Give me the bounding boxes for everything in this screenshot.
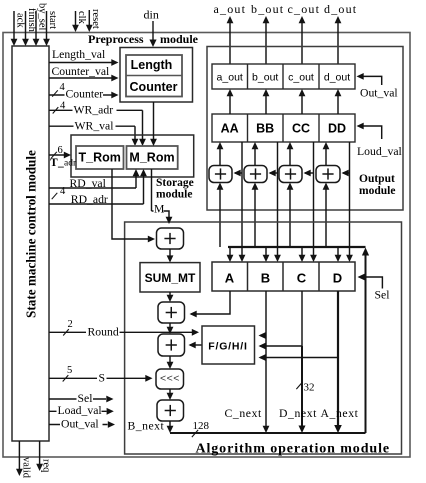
wire register A to adder2 — [191, 291, 230, 314]
wire DD down to register D — [349, 142, 351, 247]
wire bus to adder C — [289, 189, 291, 247]
adder plus output A — [209, 166, 232, 183]
wire adder1 to SUM_MT — [169, 249, 171, 256]
wire SUM_MT to adder2 — [169, 292, 171, 296]
signal T_adr with width 6 — [49, 154, 67, 156]
svg-text:SUM_MT: SUM_MT — [145, 271, 196, 285]
wire adder to BB — [254, 148, 256, 165]
svg-text:Round: Round — [88, 325, 119, 338]
signal Load_val stub — [49, 410, 107, 412]
svg-text:Storage: Storage — [156, 177, 194, 189]
bus stub into register D slot 1 — [337, 247, 339, 256]
svg-text:4: 4 — [60, 101, 66, 112]
wire preprocess to M_Rom — [153, 102, 155, 141]
svg-text:S: S — [99, 371, 106, 384]
wire BB down to register B — [277, 142, 279, 247]
bus stub into register B slot 1 — [265, 247, 267, 256]
wire bus to adder B — [254, 189, 256, 247]
svg-text:CC: CC — [292, 122, 310, 136]
adder plus stage4 — [157, 400, 184, 421]
svg-text:State machine control module: State machine control module — [24, 150, 39, 318]
adder plus output C — [279, 166, 302, 183]
bottom feedback bus line width 128 — [170, 432, 366, 434]
wire adder to DD — [325, 148, 327, 165]
svg-text:Out_val: Out_val — [61, 418, 99, 431]
input signal ack — [13, 11, 15, 40]
wire T from T_Rom to adder1 — [112, 169, 150, 239]
svg-text:T: T — [50, 157, 58, 169]
svg-text:6: 6 — [58, 145, 63, 156]
signal Round width 2 into F/G/H/I — [49, 331, 194, 333]
register row a_out b_out c_out d_out — [212, 64, 355, 89]
algorithm operation module box — [125, 222, 402, 454]
wire B_next from adder4 to bus — [169, 421, 171, 427]
svg-text:B_next: B_next — [128, 420, 165, 433]
svg-text:module: module — [160, 32, 199, 46]
svg-text:Counter: Counter — [66, 88, 104, 101]
svg-text:din: din — [144, 8, 159, 22]
svg-text:AA: AA — [221, 122, 239, 136]
tap BB into adder B — [270, 172, 278, 174]
svg-text:module: module — [156, 189, 192, 201]
adder plus algorithm input — [157, 228, 184, 249]
svg-text:_: _ — [57, 157, 64, 169]
svg-text:M_Rom: M_Rom — [129, 151, 174, 165]
svg-text:ack: ack — [15, 13, 26, 28]
signal Loud_val — [357, 123, 364, 130]
bus stub into register D slot 2 — [349, 247, 351, 256]
svg-text:Length: Length — [131, 58, 173, 72]
svg-text:D_next: D_next — [279, 407, 317, 420]
rom M_Rom — [127, 146, 178, 169]
svg-text:Preprocess: Preprocess — [88, 32, 144, 46]
block F/G/H/I — [202, 326, 255, 364]
input signal clk — [75, 11, 77, 26]
signal Sel into register D — [358, 274, 365, 281]
svg-text:D: D — [333, 271, 342, 286]
shifter block <<< — [156, 369, 184, 389]
svg-text:a_out: a_out — [214, 2, 247, 16]
svg-text:Counter: Counter — [130, 80, 178, 94]
wire register D down A_next — [337, 291, 339, 358]
svg-text:BB: BB — [256, 122, 274, 136]
wire shifter to adder4 — [169, 389, 171, 394]
svg-text:32: 32 — [304, 382, 315, 394]
svg-text:module: module — [359, 185, 395, 197]
feedback wire up to bus bar — [365, 252, 367, 433]
signal Sel stub — [49, 398, 106, 400]
adder plus output B — [244, 166, 267, 183]
wire BB to b_out — [265, 95, 267, 114]
bus bar above registers — [228, 246, 366, 248]
wire CC down to register C — [313, 142, 315, 247]
wire adder2 to adder3 — [169, 323, 171, 328]
bus stub into register C slot 1 — [301, 247, 303, 256]
adder plus output D — [316, 166, 340, 183]
adder plus stage3 — [158, 334, 185, 356]
svg-text:Counter_val: Counter_val — [52, 65, 111, 78]
svg-text:start: start — [47, 11, 58, 29]
svg-text:Sel: Sel — [375, 289, 391, 302]
svg-text:<<<: <<< — [160, 373, 180, 385]
signal Out_val stub — [49, 424, 108, 426]
signal S width 5 into shifter — [49, 377, 148, 379]
svg-text:d_out: d_out — [324, 72, 350, 84]
preprocess module box — [120, 48, 193, 103]
svg-text:C_next: C_next — [225, 407, 263, 420]
svg-text:M: M — [154, 203, 165, 216]
svg-text:4: 4 — [60, 186, 66, 197]
output signal req — [39, 441, 41, 465]
svg-text:a_out: a_out — [217, 72, 243, 84]
svg-text:C: C — [297, 271, 307, 286]
wire register B down C_next — [265, 291, 267, 336]
wire d_out to top — [337, 22, 339, 64]
wire AA to a_out — [229, 95, 231, 114]
wire adder to CC — [289, 148, 291, 165]
state machine control module box — [12, 46, 49, 441]
svg-text:B: B — [261, 271, 270, 286]
register row AA BB CC DD — [212, 114, 355, 142]
signal Counter with width 4 — [49, 94, 103, 96]
bus stub into register B slot 2 — [277, 247, 279, 256]
wire bus to adder A — [219, 189, 221, 247]
input signal reset — [88, 10, 90, 26]
svg-text:d_out: d_out — [324, 2, 357, 16]
wire c_out to top — [301, 22, 303, 64]
bus stub into register A slot 1 — [229, 247, 231, 256]
rom T_Rom — [76, 146, 124, 169]
svg-text:Loud_val: Loud_val — [357, 145, 403, 158]
svg-text:req: req — [41, 459, 52, 473]
svg-text:RD_val: RD_val — [70, 177, 107, 190]
register row A B C D — [212, 262, 355, 291]
svg-text:WR_adr: WR_adr — [74, 104, 114, 117]
output signal valid — [18, 441, 20, 470]
svg-text:c_out: c_out — [288, 2, 321, 16]
svg-text:F/G/H/I: F/G/H/I — [208, 341, 247, 353]
input signal by_sel — [35, 11, 37, 40]
tap AA into adder A — [235, 172, 242, 174]
svg-text:c_out: c_out — [288, 72, 314, 84]
svg-text:T_Rom: T_Rom — [79, 151, 121, 165]
wire b_out to top — [265, 22, 267, 64]
tap CC into adder C — [305, 172, 314, 174]
storage module box — [71, 135, 194, 177]
svg-text:b_out: b_out — [251, 2, 284, 16]
svg-text:reset: reset — [90, 9, 101, 29]
wire CC to c_out — [301, 95, 303, 114]
svg-text:128: 128 — [193, 420, 210, 432]
svg-text:Out_val: Out_val — [360, 87, 398, 100]
svg-text:RD_adr: RD_adr — [71, 193, 108, 206]
signal WR_adr with width 4 — [49, 109, 143, 111]
wire adder to AA — [219, 148, 221, 165]
svg-text:A: A — [225, 271, 235, 286]
bus stub into register C slot 2 — [313, 247, 315, 256]
svg-text:adr: adr — [64, 159, 77, 169]
wire a_out to top — [229, 22, 231, 64]
svg-text:b_out: b_out — [252, 72, 278, 84]
svg-text:Length_val: Length_val — [52, 48, 106, 61]
svg-text:DD: DD — [328, 122, 346, 136]
adder plus stage2 — [158, 302, 185, 323]
svg-text:Output: Output — [359, 173, 395, 185]
signal Out_val — [357, 73, 364, 80]
svg-text:Algorithm operation module: Algorithm operation module — [195, 441, 390, 456]
wire M from M_Rom to adder1 — [151, 169, 153, 211]
svg-text:5: 5 — [67, 365, 72, 376]
tap DD into adder D — [343, 172, 350, 174]
svg-text:clk: clk — [76, 11, 87, 25]
signal RD_adr with width 4 — [49, 203, 144, 205]
output module box — [207, 47, 403, 211]
wire bus to adder D — [325, 189, 327, 247]
svg-text:valid: valid — [21, 457, 32, 479]
length counter block — [126, 55, 182, 97]
bus stub into register A slot 2 — [241, 247, 243, 256]
wire register C down D_next — [301, 291, 303, 346]
wire DD to d_out — [337, 95, 339, 114]
wire adder3 to shifter — [169, 356, 171, 363]
svg-text:Load_val: Load_val — [58, 404, 103, 417]
signal WR_val — [49, 125, 135, 127]
wire AA down to register A — [241, 142, 243, 247]
signal RD_val — [49, 187, 136, 189]
svg-text:WR_val: WR_val — [75, 119, 115, 132]
block SUM_MT — [140, 263, 200, 292]
input signal finish — [25, 11, 27, 40]
input signal start — [46, 11, 48, 40]
wire F/G/H/I output to adder3 — [190, 344, 202, 346]
svg-text:2: 2 — [68, 319, 73, 330]
svg-text:A_next: A_next — [321, 407, 359, 420]
